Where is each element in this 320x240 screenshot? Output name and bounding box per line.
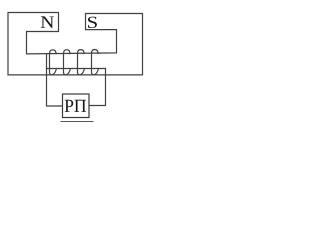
- svg-text:N: N: [40, 13, 54, 33]
- svg-text:S: S: [87, 14, 99, 33]
- device box RP: [63, 94, 90, 118]
- wire left lead to device: [47, 54, 63, 106]
- baseline under box: [61, 121, 94, 123]
- coil turn 4: [92, 50, 99, 75]
- wire coil bottom conductor: [47, 68, 106, 70]
- svg-text:РП: РП: [64, 95, 86, 116]
- coil turn 2: [64, 50, 71, 75]
- wire right lead to device: [90, 69, 106, 106]
- coil turn 3: [78, 50, 85, 75]
- coil turn 1: [50, 50, 57, 75]
- magnet yoke outline with air gap between poles: [8, 13, 143, 75]
